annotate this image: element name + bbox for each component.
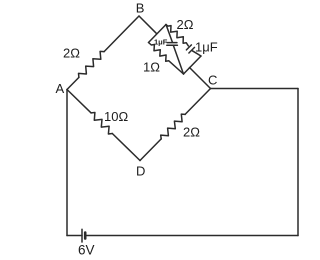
svg-text:1μF: 1μF [154,37,168,46]
wire node C to right edge [211,88,299,90]
resistor R=2ohm (arm A-B) [79,51,105,77]
wire node D to 2ohm resistor (arm D-C) [140,139,161,161]
wire 2ohm resistor to node C [185,89,210,115]
wire 10ohm resistor to node D [112,134,140,161]
wire left edge vertical up to node A [66,90,68,236]
wire bottom from right edge to battery [86,235,298,237]
bridge edge T-L (plain wire, top-left side of parallelogram) [149,25,167,43]
wire node B to bridge network (T-L edge) [139,16,156,33]
svg-text:1μF: 1μF [195,40,218,55]
bridge diagonal wire T to middle capacitor [166,25,172,43]
capacitor 1uF plates (middle diagonal) [167,42,177,44]
svg-text:6V: 6V [78,243,95,258]
resistor R=10ohm (arm A-D) [91,113,112,135]
battery short plate (negative) [84,233,87,239]
wire A to 10ohm resistor (arm A-D) [67,90,91,113]
battery long plate (positive) [81,229,83,242]
svg-text:10Ω: 10Ω [104,109,128,124]
capacitor 1uF plates (bridge branch, before corner R) [186,45,191,50]
resistor 2ohm (bridge top branch T-R) [166,25,188,46]
wire right edge vertical [297,89,299,236]
wire bridge network (R-Bo edge) to node C [190,68,211,89]
svg-text:1Ω: 1Ω [143,60,160,75]
wire battery to bottom-left corner [67,235,82,237]
wire 2ohm resistor to node B [104,16,139,52]
svg-text:2Ω: 2Ω [183,125,200,140]
svg-text:C: C [208,73,217,88]
svg-text:B: B [136,1,145,16]
wire A to 2ohm resistor (arm A-B) [67,77,79,89]
svg-text:D: D [136,164,145,179]
svg-text:2Ω: 2Ω [63,46,80,61]
resistor R=2ohm (arm D-C) [161,114,185,139]
bridge edge R-Bo (plain wire, bottom-right side of parallelogram) [184,56,202,74]
bridge diagonal wire middle capacitor to Bo [173,46,183,75]
resistor 1ohm (bridge bottom branch L-Bo) [149,43,184,75]
svg-text:2Ω: 2Ω [177,17,194,32]
svg-text:A: A [56,81,65,96]
wire capacitor to corner R [192,51,201,56]
